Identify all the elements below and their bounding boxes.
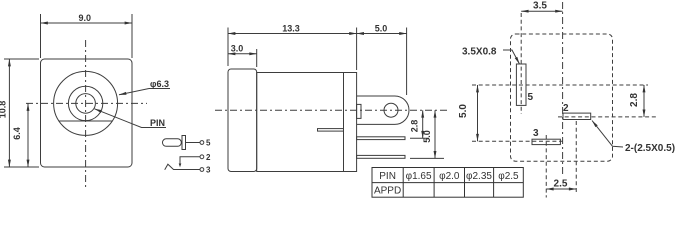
side view main body [257, 73, 344, 172]
lower pin extension line [410, 157, 444, 159]
front view outer circle φ6.3 [54, 71, 118, 135]
side view rear block [228, 69, 257, 172]
svg-text:φ6.3: φ6.3 [150, 79, 169, 89]
svg-text:2.5: 2.5 [554, 179, 568, 190]
label 2-(2.5X0.5) leader [592, 121, 623, 148]
side view centerline [215, 109, 448, 111]
svg-text:10.8: 10.8 [0, 101, 8, 119]
label 3.5X0.8 leader [503, 50, 520, 64]
footprint pad3 row line [472, 140, 563, 142]
schematic pin5 terminal [200, 141, 204, 145]
dimension 5.0 extension line [406, 28, 408, 96]
svg-text:APPD: APPD [374, 186, 401, 197]
schematic pin2 wire with arrow [180, 157, 200, 164]
footprint pad 3 slot [532, 139, 560, 144]
dimension 5.0 footprint line [477, 85, 479, 141]
schematic plug tip bar [182, 136, 186, 150]
svg-text:9.0: 9.0 [78, 13, 91, 23]
footprint pad 5 slot [516, 64, 526, 105]
side view back pin [318, 129, 344, 132]
svg-text:5.0: 5.0 [422, 130, 432, 143]
side view upper pin [357, 137, 405, 140]
schematic pin5 wire [186, 142, 200, 144]
front view chord line [59, 120, 113, 122]
footprint outline dashed [511, 34, 613, 161]
dimension 13.3 extension lines [227, 28, 229, 67]
svg-text:5.0: 5.0 [375, 24, 388, 34]
dimension 9.0 line [41, 22, 133, 24]
dimension 9.0 extension lines [40, 14, 42, 58]
svg-text:φ2.5: φ2.5 [498, 171, 519, 182]
footprint pad3 center vertical line [545, 135, 547, 198]
side view solder lug [357, 96, 409, 124]
dimension 2.8 side view line [422, 110, 424, 138]
side view pin boss [357, 104, 361, 118]
front view vertical centerline [85, 40, 87, 188]
dimension 5.0 side view line [434, 110, 436, 158]
dimension 13.3 line [228, 33, 357, 35]
svg-text:φ2.35: φ2.35 [466, 171, 492, 182]
svg-text:3: 3 [206, 166, 211, 175]
svg-text:PIN: PIN [150, 118, 165, 128]
footprint pad 2 slot [563, 113, 591, 119]
svg-text:6.4: 6.4 [12, 127, 22, 140]
dimension 6.4 line [27, 104, 29, 168]
svg-text:2: 2 [206, 153, 211, 162]
schematic pin2 terminal [200, 155, 204, 159]
table grid [372, 168, 523, 198]
dimension 3.5 line [521, 10, 562, 12]
side view front plate [344, 73, 357, 172]
svg-text:3.5: 3.5 [533, 1, 547, 12]
dimension 3.0 line [228, 53, 257, 55]
footprint vertical centerline [562, 2, 564, 176]
dimension 2.8 footprint line [643, 85, 645, 117]
svg-text:φ1.65: φ1.65 [406, 171, 432, 182]
svg-text:13.3: 13.3 [282, 24, 300, 34]
footprint pad5 center vertical line [520, 13, 522, 114]
svg-text:3.0: 3.0 [231, 44, 244, 54]
svg-text:2.8: 2.8 [410, 120, 420, 133]
schematic pin3 terminal [200, 168, 204, 172]
front view body outline [41, 59, 133, 167]
upper pin extension line [410, 137, 429, 139]
side view lower pin [357, 155, 405, 158]
svg-text:5: 5 [528, 92, 534, 103]
svg-text:2: 2 [563, 103, 569, 114]
front view middle circle [68, 86, 102, 120]
side view lug hole [384, 103, 398, 117]
dimension 10.8 extension lines [4, 58, 39, 60]
svg-text:5: 5 [206, 139, 211, 148]
svg-text:2.8: 2.8 [629, 93, 640, 107]
dimension 5.0 line [357, 33, 407, 35]
svg-text:5.0: 5.0 [458, 104, 469, 118]
dimension 10.8 line [8, 59, 10, 167]
label PIN leader [95, 109, 167, 128]
svg-text:3.5X0.8: 3.5X0.8 [462, 47, 497, 58]
svg-text:PIN: PIN [379, 171, 396, 182]
dimension 2.5 line [546, 188, 576, 190]
dimension 3.0 extension line [256, 49, 258, 67]
svg-text:φ2.0: φ2.0 [439, 171, 460, 182]
label φ6.3 leader [119, 89, 170, 95]
front view pin circle [76, 94, 96, 114]
front view horizontal centerline [26, 102, 147, 104]
footprint pad2 row line [558, 116, 656, 118]
schematic pin3 wire and switch lever [165, 164, 200, 170]
schematic plug barrel [163, 139, 182, 147]
footprint pad2 center vertical line [575, 121, 577, 192]
footprint horizontal centerline [472, 84, 648, 86]
svg-text:3: 3 [533, 128, 539, 139]
svg-text:2-(2.5X0.5): 2-(2.5X0.5) [625, 143, 675, 154]
